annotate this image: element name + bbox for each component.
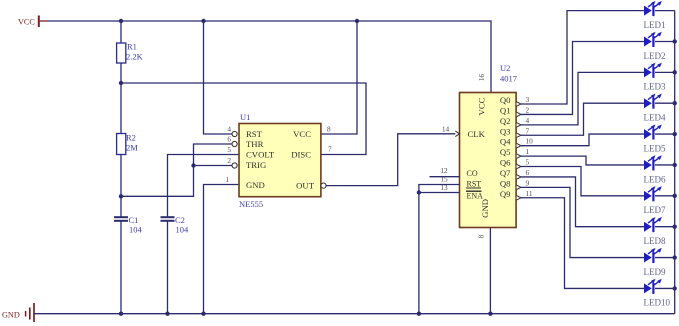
wire DISC net to U1 pin 7 xyxy=(121,83,366,155)
wire R1 node to R2 xyxy=(120,83,122,134)
wire LED4 cathode to rail xyxy=(655,102,675,104)
U2 CLK input arrow xyxy=(455,131,459,137)
wire TRIG branch to U1 pin 2 xyxy=(194,165,233,167)
node C1/GND rail junction xyxy=(119,312,123,316)
svg-text:3: 3 xyxy=(526,95,530,104)
svg-text:5: 5 xyxy=(526,158,530,167)
label LED1 xyxy=(644,20,666,30)
svg-text:LED2: LED2 xyxy=(644,51,666,61)
capacitor C2 104 xyxy=(161,215,190,235)
ground symbol GND xyxy=(2,303,34,322)
wire LED2 cathode to rail xyxy=(655,40,675,42)
svg-text:LED10: LED10 xyxy=(644,298,671,308)
wire U1 pin 5 CVOLT to C2 xyxy=(168,155,240,217)
svg-text:Q0: Q0 xyxy=(500,95,511,105)
U2 pin Q7 output arrow xyxy=(517,175,521,179)
resistor R2 2M xyxy=(117,133,139,155)
node LED7 rail junction xyxy=(673,194,677,198)
wire Q6 to LED7 xyxy=(521,167,644,196)
wire Q9 to LED10 xyxy=(521,198,644,289)
svg-text:Q1: Q1 xyxy=(500,105,511,115)
node RST/GND rail junction xyxy=(417,312,421,316)
U2 pin number 2 (Q1) xyxy=(526,105,530,114)
svg-text:4: 4 xyxy=(526,116,530,125)
svg-text:LED1: LED1 xyxy=(644,20,666,30)
LED10 xyxy=(644,279,662,294)
svg-text:1: 1 xyxy=(526,147,530,156)
wire THR net horizontal xyxy=(121,144,232,196)
node LED9 rail junction xyxy=(673,255,677,259)
U2 pin Q9 output arrow xyxy=(517,196,521,200)
svg-text:LED9: LED9 xyxy=(644,267,666,277)
LED5 xyxy=(644,124,662,139)
U2 pin number 13 xyxy=(440,183,448,192)
node U2 GND rail junction xyxy=(488,312,492,316)
wire U1 pin 1 GND to rail xyxy=(204,185,240,314)
wire GND bottom rail xyxy=(34,313,675,315)
U2 pin number 16 xyxy=(477,74,486,82)
wire Q7 to LED8 xyxy=(521,177,644,227)
U2 pin number 4 (Q2) xyxy=(526,116,530,125)
U2 pin Q2 output arrow xyxy=(517,123,521,127)
resistor R1 2.2K xyxy=(117,42,144,64)
node R1/R2/DISC junction xyxy=(119,81,123,85)
wire VCC top rail to U2 pin 16 xyxy=(48,21,491,93)
svg-text:8: 8 xyxy=(327,125,331,134)
wire Q0 to LED1 xyxy=(521,11,644,104)
svg-text:THR: THR xyxy=(246,139,264,149)
node LED8 rail junction xyxy=(673,224,677,228)
svg-text:C1: C1 xyxy=(129,215,139,225)
svg-text:2M: 2M xyxy=(126,143,138,153)
LED9 xyxy=(644,248,662,263)
U2 pin number 6 (Q7) xyxy=(526,168,530,177)
node ENA/RST junction xyxy=(417,190,421,194)
U2 pin name Q9 xyxy=(500,189,511,199)
U2 pin name Q2 xyxy=(500,116,511,126)
wire LED5 cathode to rail xyxy=(655,133,675,135)
svg-text:7: 7 xyxy=(328,145,332,154)
U1 pin 3 OUT bubble xyxy=(321,183,326,188)
label LED5 xyxy=(644,143,666,153)
svg-text:OUT: OUT xyxy=(296,181,315,191)
power symbol VCC xyxy=(18,16,48,28)
wire LED7 cathode to rail xyxy=(655,195,675,197)
svg-text:10: 10 xyxy=(526,137,534,146)
LED2 xyxy=(644,32,662,47)
svg-text:GND: GND xyxy=(2,310,20,319)
svg-text:16: 16 xyxy=(477,74,486,82)
node LED2 rail junction xyxy=(673,39,677,43)
U2 pin name Q0 xyxy=(500,95,511,105)
U2 pin name Q3 xyxy=(500,126,511,136)
LED4 xyxy=(644,94,662,109)
U2 pin Q5 output arrow xyxy=(517,154,521,158)
svg-text:GND: GND xyxy=(246,180,265,190)
svg-text:GND: GND xyxy=(480,199,490,218)
U2 pin number 15 xyxy=(440,175,448,184)
wire LED9 cathode to rail xyxy=(655,257,675,259)
svg-text:NE555: NE555 xyxy=(239,199,263,209)
node LED3 rail junction xyxy=(673,70,677,74)
U2 pin Q4 output arrow xyxy=(517,143,521,147)
label LED8 xyxy=(644,236,666,246)
U2 pin number 11 (Q9) xyxy=(526,189,533,198)
svg-text:LED8: LED8 xyxy=(644,236,666,246)
wire U1 pin 8 VCC xyxy=(321,21,357,134)
svg-text:6: 6 xyxy=(526,168,530,177)
U2 pin Q6 output arrow xyxy=(517,164,521,168)
wire Q5 to LED6 xyxy=(521,156,644,165)
svg-text:CVOLT: CVOLT xyxy=(246,150,275,160)
svg-text:VCC: VCC xyxy=(293,129,311,139)
svg-text:CO: CO xyxy=(467,169,478,178)
svg-text:4017: 4017 xyxy=(500,74,517,84)
U2 pin Q0 output arrow xyxy=(517,102,521,106)
svg-text:VCC: VCC xyxy=(18,18,35,27)
wire LED3 cathode to rail xyxy=(655,71,675,73)
node LED4 rail junction xyxy=(673,101,677,105)
wire Q2 to LED3 xyxy=(521,72,644,125)
svg-text:Q5: Q5 xyxy=(500,147,511,157)
U2 pin number 7 (Q3) xyxy=(526,126,530,135)
svg-text:104: 104 xyxy=(176,225,190,235)
label LED10 xyxy=(644,298,671,308)
wire VCC to R1 xyxy=(120,21,122,43)
svg-text:R2: R2 xyxy=(126,133,136,143)
LED7 xyxy=(644,186,662,201)
U2 pin name Q5 xyxy=(500,147,511,157)
svg-text:Q7: Q7 xyxy=(500,168,511,178)
svg-text:CLK: CLK xyxy=(468,129,486,139)
svg-text:1: 1 xyxy=(225,175,229,184)
wire LED6 cathode to rail xyxy=(655,164,675,166)
U2 pin number 1 (Q5) xyxy=(526,147,530,156)
label LED9 xyxy=(644,267,666,277)
svg-text:Q4: Q4 xyxy=(500,137,511,147)
svg-text:ENA: ENA xyxy=(467,191,484,200)
wire U2 pin 8 GND to rail xyxy=(489,228,491,314)
U2 pin name Q6 xyxy=(500,158,511,168)
U2 pin number 12 xyxy=(440,166,448,175)
wire U2 ENA pin 13 to ground xyxy=(419,192,460,194)
wire Q1 to LED2 xyxy=(521,41,644,114)
svg-text:U1: U1 xyxy=(240,112,250,122)
svg-text:9: 9 xyxy=(526,178,530,187)
U1 pin numbers left xyxy=(225,125,231,185)
LED3 xyxy=(644,63,662,78)
node LED10 rail junction xyxy=(673,286,677,290)
U2 pin number 8 xyxy=(477,234,486,238)
U2 pin number 10 (Q4) xyxy=(526,137,534,146)
svg-text:DISC: DISC xyxy=(291,150,311,160)
svg-text:LED4: LED4 xyxy=(644,113,666,123)
U1 pin 2 TRIG bubble xyxy=(232,163,237,168)
wire RST net to U1 pin 4 xyxy=(204,21,233,134)
label LED7 xyxy=(644,205,666,215)
label U2 xyxy=(500,63,510,73)
svg-text:Q3: Q3 xyxy=(500,126,511,136)
U1 pin 4 RST bubble xyxy=(232,131,237,136)
svg-text:Q6: Q6 xyxy=(500,158,511,168)
svg-text:Q8: Q8 xyxy=(500,178,511,188)
node LED6 rail junction xyxy=(673,163,677,167)
node U1 GND rail junction xyxy=(201,312,205,316)
svg-text:LED5: LED5 xyxy=(644,143,666,153)
wire LED1 cathode to rail xyxy=(655,10,675,12)
IC U2 4017 body xyxy=(460,93,517,228)
wire LED10 cathode to rail xyxy=(655,287,675,289)
U2 pin Q1 output arrow xyxy=(517,112,521,116)
svg-text:C2: C2 xyxy=(175,215,185,225)
LED1 xyxy=(644,1,662,16)
wire C2 to ground xyxy=(167,221,169,313)
svg-text:7: 7 xyxy=(526,126,530,135)
U2 pin number 3 (Q0) xyxy=(526,95,530,104)
wire Q3 to LED4 xyxy=(521,103,644,135)
U2 pin name Q4 xyxy=(500,137,511,147)
node VCC/RST junction xyxy=(201,19,205,23)
node VCC/U1 junction xyxy=(355,19,359,23)
svg-text:104: 104 xyxy=(129,225,143,235)
svg-text:4: 4 xyxy=(227,125,231,134)
U2 pin Q8 output arrow xyxy=(517,185,521,189)
U2 pin name Q1 xyxy=(500,105,511,115)
node VCC/R1 junction xyxy=(119,19,123,23)
svg-text:11: 11 xyxy=(526,189,533,198)
svg-text:5: 5 xyxy=(227,145,231,154)
LED8 xyxy=(644,217,662,232)
LED6 xyxy=(644,155,662,170)
U2 pin number 14 xyxy=(442,124,450,133)
svg-text:2.2K: 2.2K xyxy=(126,52,144,62)
label LED2 xyxy=(644,51,666,61)
svg-text:LED6: LED6 xyxy=(644,174,666,184)
svg-text:Q9: Q9 xyxy=(500,189,511,199)
svg-text:2: 2 xyxy=(227,156,231,165)
U2 pin name Q7 xyxy=(500,168,511,178)
wire U2 CO pin 12 stub xyxy=(430,176,460,178)
label NE555 xyxy=(239,199,263,209)
label LED6 xyxy=(644,174,666,184)
label U1 xyxy=(240,112,250,122)
wire LED8 cathode to rail xyxy=(655,226,675,228)
node C2/GND rail junction xyxy=(165,312,169,316)
U2 pin number 5 (Q6) xyxy=(526,158,530,167)
node LED5 rail junction xyxy=(673,132,677,136)
svg-text:VCC: VCC xyxy=(477,97,487,115)
label 4017 xyxy=(500,74,517,84)
wire Q8 to LED9 xyxy=(521,187,644,257)
svg-text:Q2: Q2 xyxy=(500,116,511,126)
U1 pin 6 THR bubble xyxy=(232,141,237,146)
wire U2 RST pin 15 to ground xyxy=(419,185,460,314)
capacitor C1 104 xyxy=(114,215,143,235)
wire C1 to ground xyxy=(120,221,122,313)
wire R2 to THR/TRIG node xyxy=(120,155,122,197)
svg-text:TRIG: TRIG xyxy=(246,160,266,170)
svg-text:2: 2 xyxy=(526,105,530,114)
svg-text:RST: RST xyxy=(467,179,482,188)
svg-text:R1: R1 xyxy=(127,42,137,52)
svg-text:8: 8 xyxy=(477,234,486,238)
wire R1 to DISC node xyxy=(120,63,122,83)
U1 pin numbers right xyxy=(327,125,332,154)
node R2/C1/THR junction xyxy=(119,194,123,198)
U2 pin Q3 output arrow xyxy=(517,133,521,137)
wire node to C1 xyxy=(120,196,122,216)
svg-text:14: 14 xyxy=(442,124,450,133)
svg-text:LED7: LED7 xyxy=(644,205,666,215)
svg-text:LED3: LED3 xyxy=(644,82,666,92)
U2 pin name Q8 xyxy=(500,178,511,188)
op-amp U1 NE555 body xyxy=(239,124,321,197)
U2 pin number 9 (Q8) xyxy=(526,178,530,187)
node TRIG junction xyxy=(191,163,195,167)
svg-text:U2: U2 xyxy=(500,63,510,73)
label LED4 xyxy=(644,113,666,123)
wire LED cathode rail (right) xyxy=(674,11,676,314)
wire Q4 to LED5 xyxy=(521,134,644,146)
wire U1 OUT to U2 CLK xyxy=(326,134,459,186)
svg-text:RST: RST xyxy=(246,129,263,139)
label LED3 xyxy=(644,82,666,92)
svg-text:6: 6 xyxy=(227,135,231,144)
